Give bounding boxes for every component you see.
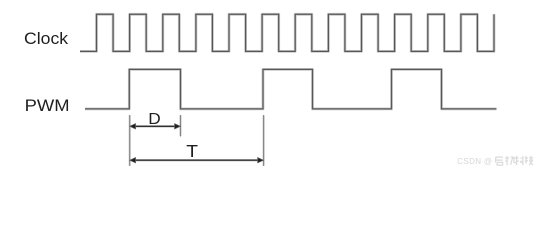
- svg-text:D: D: [148, 110, 160, 128]
- svg-text:Clock: Clock: [24, 30, 69, 48]
- svg-text:PWM: PWM: [25, 96, 70, 115]
- svg-text:CSDN @: CSDN @: [457, 157, 492, 166]
- svg-text:T: T: [186, 141, 198, 161]
